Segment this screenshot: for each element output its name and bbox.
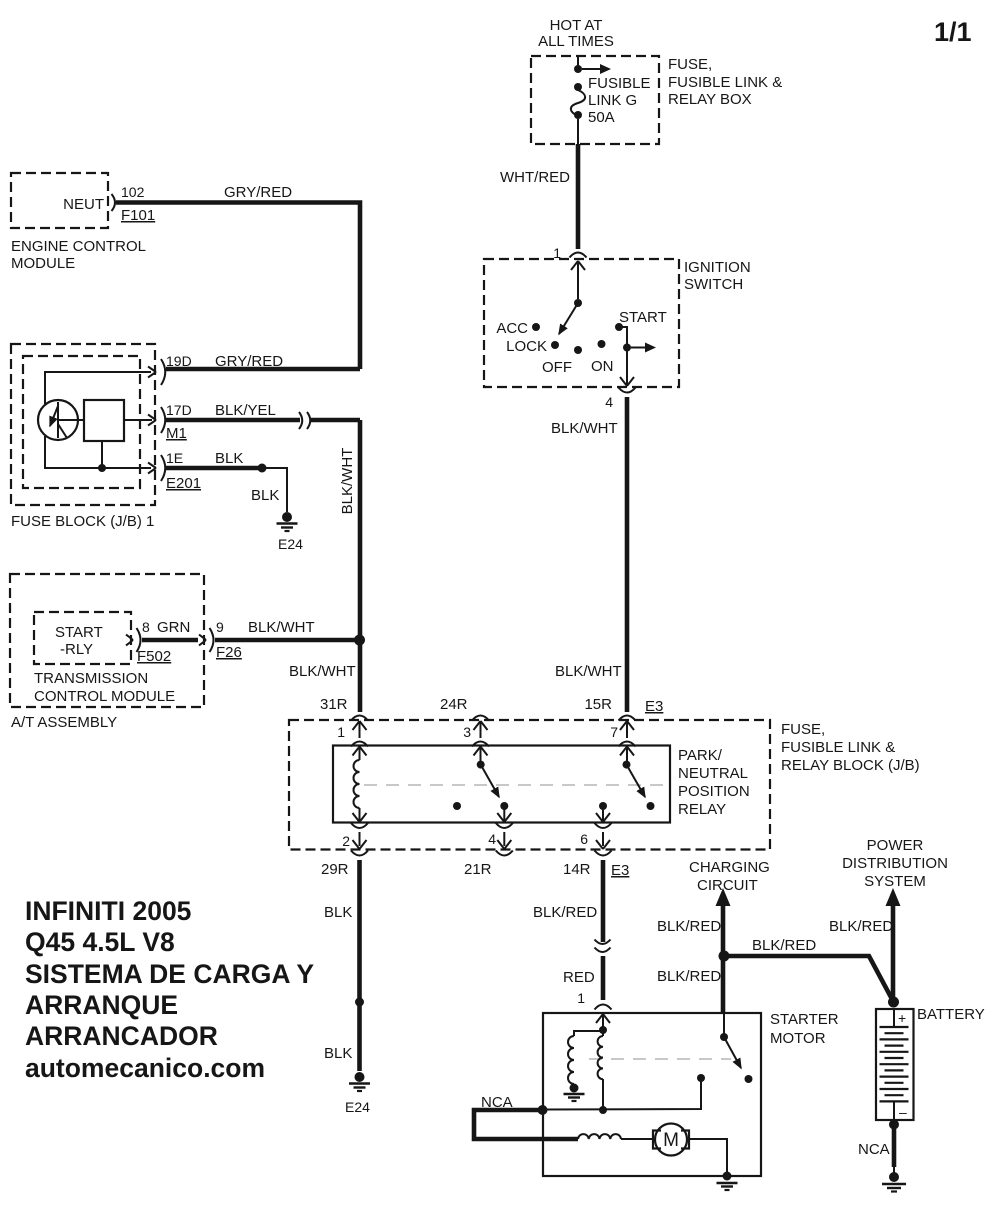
svg-text:21R: 21R [464, 861, 492, 878]
ignition switch lever to LOCK [559, 303, 578, 334]
wire WHT/RED down to ignition switch pin 1 [576, 144, 581, 249]
connector id E201 [166, 475, 201, 492]
svg-text:BLK/WHT: BLK/WHT [248, 619, 315, 636]
svg-text:CIRCUIT: CIRCUIT [697, 877, 758, 894]
svg-text:24R: 24R [440, 696, 468, 713]
connector id F502 [137, 648, 171, 665]
svg-text:6: 6 [580, 831, 588, 847]
wire inductor to motor [621, 1138, 654, 1140]
svg-text:SYSTEM: SYSTEM [864, 873, 926, 890]
svg-text:ENGINE CONTROL: ENGINE CONTROL [11, 238, 146, 255]
title SISTEMA DE CARGA Y [25, 959, 314, 989]
starter internal dashed axis [589, 1058, 731, 1060]
svg-text:IGNITION: IGNITION [684, 259, 751, 276]
wire stub from box top [577, 56, 579, 69]
svg-text:E201: E201 [166, 475, 201, 492]
svg-text:SWITCH: SWITCH [684, 276, 743, 293]
park/neutral position relay box (solid) [333, 746, 670, 823]
label BLK/WHT (F26) [248, 619, 315, 636]
label 31R [320, 696, 348, 713]
ignition switch box (dashed) [484, 259, 679, 387]
svg-text:4: 4 [605, 394, 613, 410]
wire GRN [142, 638, 198, 643]
svg-text:FUSIBLE LINK &: FUSIBLE LINK & [668, 74, 782, 91]
wire junction down to pin 4 [620, 351, 634, 386]
label BLK/WHT vertical [339, 448, 356, 515]
svg-text:HOT AT: HOT AT [550, 17, 603, 34]
contact ACC [496, 320, 540, 337]
svg-text:BLK: BLK [251, 487, 279, 504]
svg-text:BLK/YEL: BLK/YEL [215, 402, 276, 419]
svg-text:NEUT: NEUT [63, 196, 104, 213]
svg-text:102: 102 [121, 184, 145, 200]
label BLK/RED (above junction) [657, 918, 721, 935]
relay contact NC end [647, 802, 655, 810]
wire fusible link to box bottom [577, 119, 579, 144]
relay blade 7-NC [627, 765, 646, 797]
solenoid blade end contact [745, 1075, 753, 1083]
label BLK/RED (below junction) [657, 968, 721, 985]
label BLK/RED (PDS) [829, 918, 893, 935]
svg-text:LINK G: LINK G [588, 92, 637, 109]
svg-text:FUSE,: FUSE, [668, 56, 712, 73]
connector F26 pin 9 [199, 628, 214, 652]
label BLK/YEL [215, 402, 276, 419]
value label FUSIBLE LINK G 50A [588, 75, 651, 126]
connector relay pin 4 (21R) [496, 823, 513, 856]
label GRY/RED (top) [224, 184, 292, 201]
solenoid switch blade [724, 1037, 741, 1068]
connector id E3 (bottom) [611, 862, 629, 879]
svg-text:RED: RED [563, 969, 595, 986]
svg-text:SISTEMA DE CARGA Y: SISTEMA DE CARGA Y [25, 959, 314, 989]
svg-text:POSITION: POSITION [678, 783, 750, 800]
arrow feed to right [582, 64, 611, 74]
svg-text:MODULE: MODULE [11, 255, 75, 272]
label NCA (battery) [858, 1141, 890, 1158]
label BLK/WHT (above relay 15R) [555, 663, 622, 680]
svg-text:RELAY BLOCK (J/B): RELAY BLOCK (J/B) [781, 757, 920, 774]
relay block (J/B) box (dashed) [289, 720, 770, 850]
pin 8 label [142, 619, 150, 635]
label BLK/RED (horizontal run) [752, 937, 816, 954]
label RED [563, 969, 595, 986]
svg-text:GRY/RED: GRY/RED [215, 353, 283, 370]
svg-text:BLK: BLK [324, 1045, 352, 1062]
node junction on bottom bus [98, 464, 106, 472]
svg-text:GRN: GRN [157, 619, 190, 636]
arrow to power distribution system [886, 888, 901, 906]
relay stationary contact (unused) [453, 802, 461, 810]
label FUSE, FUSIBLE LINK & RELAY BOX [668, 56, 782, 108]
svg-text:14R: 14R [563, 861, 591, 878]
node HOT AT ALL TIMES [538, 17, 614, 50]
page number 1/1 [934, 17, 972, 47]
circuit breaker symbol (circle) [38, 400, 78, 440]
svg-text:PARK/: PARK/ [678, 747, 723, 764]
label BLK/WHT (above 31R) [289, 663, 356, 680]
label 21R [464, 861, 492, 878]
svg-text:BLK: BLK [215, 450, 243, 467]
pin 4 label [605, 394, 613, 410]
svg-text:ON: ON [591, 358, 614, 375]
connector id M1 [166, 425, 187, 442]
svg-text:50A: 50A [588, 109, 615, 126]
label BLK/RED (14R) [533, 904, 597, 921]
wire 29R BLK down [357, 860, 362, 1071]
svg-text:START: START [55, 624, 103, 641]
svg-text:ALL TIMES: ALL TIMES [538, 33, 614, 50]
label A/T ASSEMBLY [11, 714, 117, 731]
contact ON [591, 340, 614, 375]
connector id F101 [121, 207, 155, 224]
connector starter pin 1 [595, 1005, 612, 1029]
svg-text:1: 1 [337, 724, 345, 740]
label BLK (ground lead) [251, 487, 279, 504]
connector id E3 (top) [645, 698, 663, 715]
relay switch contact pin 7 [623, 761, 631, 769]
wire motor to ground [687, 1139, 727, 1174]
label BATTERY [917, 1006, 985, 1023]
wire BLK/WHT from F26 to trunk [215, 638, 358, 643]
starter switch contact to motor [543, 1074, 705, 1110]
label 15R [584, 696, 612, 713]
battery B1 [876, 1009, 914, 1120]
svg-text:E3: E3 [645, 698, 663, 715]
node START output junction [623, 344, 631, 352]
svg-text:LOCK: LOCK [506, 338, 547, 355]
node motor ground [723, 1172, 732, 1181]
wire internal top bus [45, 372, 151, 404]
svg-text:POWER: POWER [867, 837, 924, 854]
pin 102 label [121, 184, 145, 200]
fuse/fusible-link/relay box (dashed) [531, 56, 659, 144]
ground starter motor [717, 1183, 738, 1190]
svg-text:1E: 1E [166, 450, 183, 466]
svg-text:BLK: BLK [324, 904, 352, 921]
ground id E24 (lower) [345, 1099, 370, 1115]
svg-text:FUSIBLE LINK &: FUSIBLE LINK & [781, 739, 895, 756]
svg-text:BLK/WHT: BLK/WHT [555, 663, 622, 680]
wire square bottom to bus [101, 441, 103, 468]
ground hold-in coil [564, 1094, 585, 1101]
svg-text:7: 7 [610, 724, 618, 740]
wire 14R BLK/RED down [601, 860, 606, 942]
battery polarity + [898, 1010, 906, 1026]
ground E24 (lower) [349, 1072, 370, 1091]
arrow branch to right [631, 343, 656, 353]
pin 1 label [337, 724, 345, 740]
svg-text:FUSE BLOCK (J/B) 1: FUSE BLOCK (J/B) 1 [11, 513, 154, 530]
svg-text:1/1: 1/1 [934, 17, 972, 47]
connector relay pin 2 (29R) [351, 823, 368, 856]
svg-text:BLK/WHT: BLK/WHT [551, 420, 618, 437]
svg-text:ACC: ACC [496, 320, 528, 337]
label START -RLY [55, 624, 103, 658]
relay switch contact pin 3 [477, 761, 485, 769]
relay internal dashed axis [364, 784, 668, 786]
svg-text:19D: 19D [166, 353, 192, 369]
svg-text:E3: E3 [611, 862, 629, 879]
svg-text:1: 1 [577, 990, 585, 1006]
ignition switch rotor pivot [574, 299, 582, 307]
node coil ground top [570, 1084, 579, 1093]
ground battery negative [882, 1172, 906, 1192]
svg-text:BLK/RED: BLK/RED [657, 918, 721, 935]
label BLK (1E) [215, 450, 243, 467]
wire 19D GRY/RED [166, 367, 360, 372]
wire BLK/RED power distribution vertical [891, 906, 896, 1000]
title INFINITI 2005 [25, 896, 191, 926]
ground id E24 (upper) [278, 536, 303, 552]
wire pin 6 down [596, 806, 610, 822]
label BLK/WHT (below ignition) [551, 420, 618, 437]
label PARK/NEUTRAL POSITION RELAY [678, 747, 750, 818]
engine control module box (dashed) [11, 173, 108, 228]
node battery negative [889, 1120, 899, 1130]
wire BLK/RED junction to battery [724, 956, 893, 1001]
connector 17D [148, 407, 165, 433]
pin 4 label [488, 831, 496, 847]
relay blade 3-4 [481, 765, 499, 797]
title ARRANCADOR [25, 1021, 218, 1051]
svg-text:+: + [898, 1010, 906, 1026]
svg-text:BLK/WHT: BLK/WHT [289, 663, 356, 680]
svg-text:BLK/RED: BLK/RED [657, 968, 721, 985]
arrow to charging circuit [716, 888, 731, 906]
svg-text:TRANSMISSION: TRANSMISSION [34, 670, 148, 687]
svg-text:4: 4 [488, 831, 496, 847]
svg-text:2: 2 [342, 833, 350, 849]
fuse block inner box (dashed) [23, 356, 140, 488]
connector NEUT socket [112, 194, 116, 211]
label NEUT [63, 196, 104, 213]
inline connector on 17D wire [299, 412, 310, 429]
svg-text:17D: 17D [166, 402, 192, 418]
svg-text:BLK/RED: BLK/RED [533, 904, 597, 921]
title Q45 4.5L V8 [25, 927, 175, 957]
wire BLK to ground E24 [262, 468, 287, 512]
label IGNITION SWITCH [684, 259, 751, 293]
label FUSE, FUSIBLE LINK & RELAY BLOCK (J/B) [781, 721, 920, 774]
label 24R [440, 696, 468, 713]
svg-text:M: M [663, 1130, 679, 1151]
connector pin 4 below ignition switch [619, 388, 636, 393]
label GRY/RED (19D) [215, 353, 283, 370]
node NCA at box edge [538, 1105, 548, 1115]
svg-text:–: – [899, 1104, 907, 1120]
svg-text:BLK/WHT: BLK/WHT [339, 448, 356, 515]
fuse element square [58, 400, 152, 441]
contact LOCK [506, 338, 559, 355]
pin 1 label [553, 245, 561, 261]
pin 19D label [166, 353, 192, 369]
label STARTER MOTOR [770, 1011, 839, 1047]
wire pin 4 down [497, 806, 511, 822]
node pull-in coil to NCA bus [599, 1106, 607, 1114]
wire 17D BLK/YEL to trunk [166, 418, 360, 423]
svg-text:automecanico.com: automecanico.com [25, 1053, 265, 1083]
wire NCA battery negative [892, 1124, 897, 1173]
svg-text:STARTER: STARTER [770, 1011, 839, 1028]
contact OFF [542, 346, 582, 376]
fuse block (J/B) 1 outer box (dashed) [11, 344, 155, 505]
svg-text:Q45 4.5L V8: Q45 4.5L V8 [25, 927, 175, 957]
svg-text:RELAY: RELAY [678, 801, 726, 818]
svg-text:MOTOR: MOTOR [770, 1030, 826, 1047]
svg-text:RELAY BOX: RELAY BOX [668, 91, 752, 108]
node end of 1E wire [258, 464, 267, 473]
label ENGINE CONTROL MODULE [11, 238, 146, 272]
transmission control module box (dashed) [10, 574, 204, 707]
connector 1E [148, 455, 165, 481]
svg-text:OFF: OFF [542, 359, 572, 376]
label BLK (lower) [324, 1045, 352, 1062]
pin 6 label [580, 831, 588, 847]
wire to hold-in coil [574, 1031, 603, 1036]
connector relay pin 7 (15R) [619, 716, 636, 762]
label 14R [563, 861, 591, 878]
wire GRY/RED from NEUT to vertical run [116, 203, 360, 370]
svg-text:INFINITI 2005: INFINITI 2005 [25, 896, 191, 926]
svg-text:8: 8 [142, 619, 150, 635]
wire BLK/WHT pin4 down to relay pin 7 [625, 397, 630, 712]
node top of fusible link [574, 65, 582, 73]
starter pull-in coil [598, 1030, 603, 1107]
motor M armature [653, 1124, 689, 1156]
svg-text:ARRANQUE: ARRANQUE [25, 990, 178, 1020]
svg-text:ARRANCADOR: ARRANCADOR [25, 1021, 218, 1051]
starter motor box [543, 1013, 761, 1176]
svg-text:BLK/RED: BLK/RED [752, 937, 816, 954]
label CHARGING CIRCUIT [689, 859, 770, 894]
node charging junction [719, 951, 730, 962]
wire RED to starter [601, 956, 606, 1000]
label FUSE BLOCK (J/B) 1 [11, 513, 154, 530]
wire 1E BLK [166, 466, 262, 471]
wire internal bottom bus [45, 436, 151, 468]
svg-text:NCA: NCA [858, 1141, 890, 1158]
node starter input junction [599, 1026, 607, 1034]
connector relay pin 6 (14R) [595, 823, 612, 856]
ground E24 (upper) [277, 512, 298, 531]
label POWER DISTRIBUTION SYSTEM [842, 837, 948, 890]
pin 1E label [166, 450, 183, 466]
svg-text:9: 9 [216, 619, 224, 635]
battery polarity - [899, 1104, 907, 1120]
svg-text:15R: 15R [584, 696, 612, 713]
svg-text:F101: F101 [121, 207, 155, 224]
connector relay pin 1 (31R) [351, 716, 368, 761]
relay coil exit arrow pin 2 [353, 808, 367, 822]
inline connector on 14R wire [595, 940, 611, 953]
wire NCA loop [474, 1110, 578, 1139]
label GRN [157, 619, 190, 636]
svg-text:FUSE,: FUSE, [781, 721, 825, 738]
fusible link G 50A squiggle [571, 83, 585, 119]
connector start relay output pin 8 [126, 628, 141, 652]
node trunk junction [354, 635, 365, 646]
connector pin 1 into ignition switch [570, 253, 587, 300]
label BLK (upper) [324, 904, 352, 921]
wire trunk BLK/YEL->BLK/WHT vertical [358, 420, 363, 712]
starter hold-in coil [568, 1036, 574, 1084]
svg-text:F502: F502 [137, 648, 171, 665]
relay contact pin 6 [599, 802, 607, 810]
svg-text:BATTERY: BATTERY [917, 1006, 985, 1023]
label NCA (starter) [481, 1094, 513, 1111]
pin 3 label [463, 724, 471, 740]
connector 19D [148, 359, 165, 385]
relay contact pin 4 [500, 802, 508, 810]
svg-text:M1: M1 [166, 425, 187, 442]
starter solenoid switch wire from charging node [723, 1013, 725, 1034]
connector id F26 [216, 644, 242, 661]
pin 9 label [216, 619, 224, 635]
connector 24R stub pin 3 [472, 716, 489, 762]
svg-text:CHARGING: CHARGING [689, 859, 770, 876]
node battery positive junction [888, 997, 899, 1008]
start relay box (dashed) [34, 612, 131, 664]
label 29R [321, 861, 349, 878]
svg-text:NEUTRAL: NEUTRAL [678, 765, 748, 782]
title automecanico.com [25, 1053, 265, 1083]
svg-text:DISTRIBUTION: DISTRIBUTION [842, 855, 948, 872]
starter series inductor [578, 1134, 621, 1139]
label TRANSMISSION CONTROL MODULE [34, 670, 175, 705]
wire BLK/RED charging vertical [721, 906, 726, 1013]
pin 7 label [610, 724, 618, 740]
svg-text:BLK/RED: BLK/RED [829, 918, 893, 935]
label WHT/RED [500, 169, 570, 186]
svg-text:29R: 29R [321, 861, 349, 878]
svg-text:A/T ASSEMBLY: A/T ASSEMBLY [11, 714, 117, 731]
node on BLK wire [355, 998, 364, 1007]
pin 17D label [166, 402, 192, 418]
svg-text:E24: E24 [345, 1099, 370, 1115]
wire START to output junction [619, 327, 627, 344]
svg-text:-RLY: -RLY [60, 641, 93, 658]
pin 1 label (starter) [577, 990, 585, 1006]
svg-text:E24: E24 [278, 536, 303, 552]
svg-text:3: 3 [463, 724, 471, 740]
relay coil [354, 760, 360, 808]
svg-text:START: START [619, 309, 667, 326]
svg-text:F26: F26 [216, 644, 242, 661]
svg-text:FUSIBLE: FUSIBLE [588, 75, 651, 92]
title ARRANQUE [25, 990, 178, 1020]
svg-text:GRY/RED: GRY/RED [224, 184, 292, 201]
svg-text:CONTROL MODULE: CONTROL MODULE [34, 688, 175, 705]
solenoid switch pivot [720, 1033, 728, 1041]
contact START [615, 309, 667, 331]
pin 2 label [342, 833, 350, 849]
svg-text:WHT/RED: WHT/RED [500, 169, 570, 186]
svg-text:31R: 31R [320, 696, 348, 713]
